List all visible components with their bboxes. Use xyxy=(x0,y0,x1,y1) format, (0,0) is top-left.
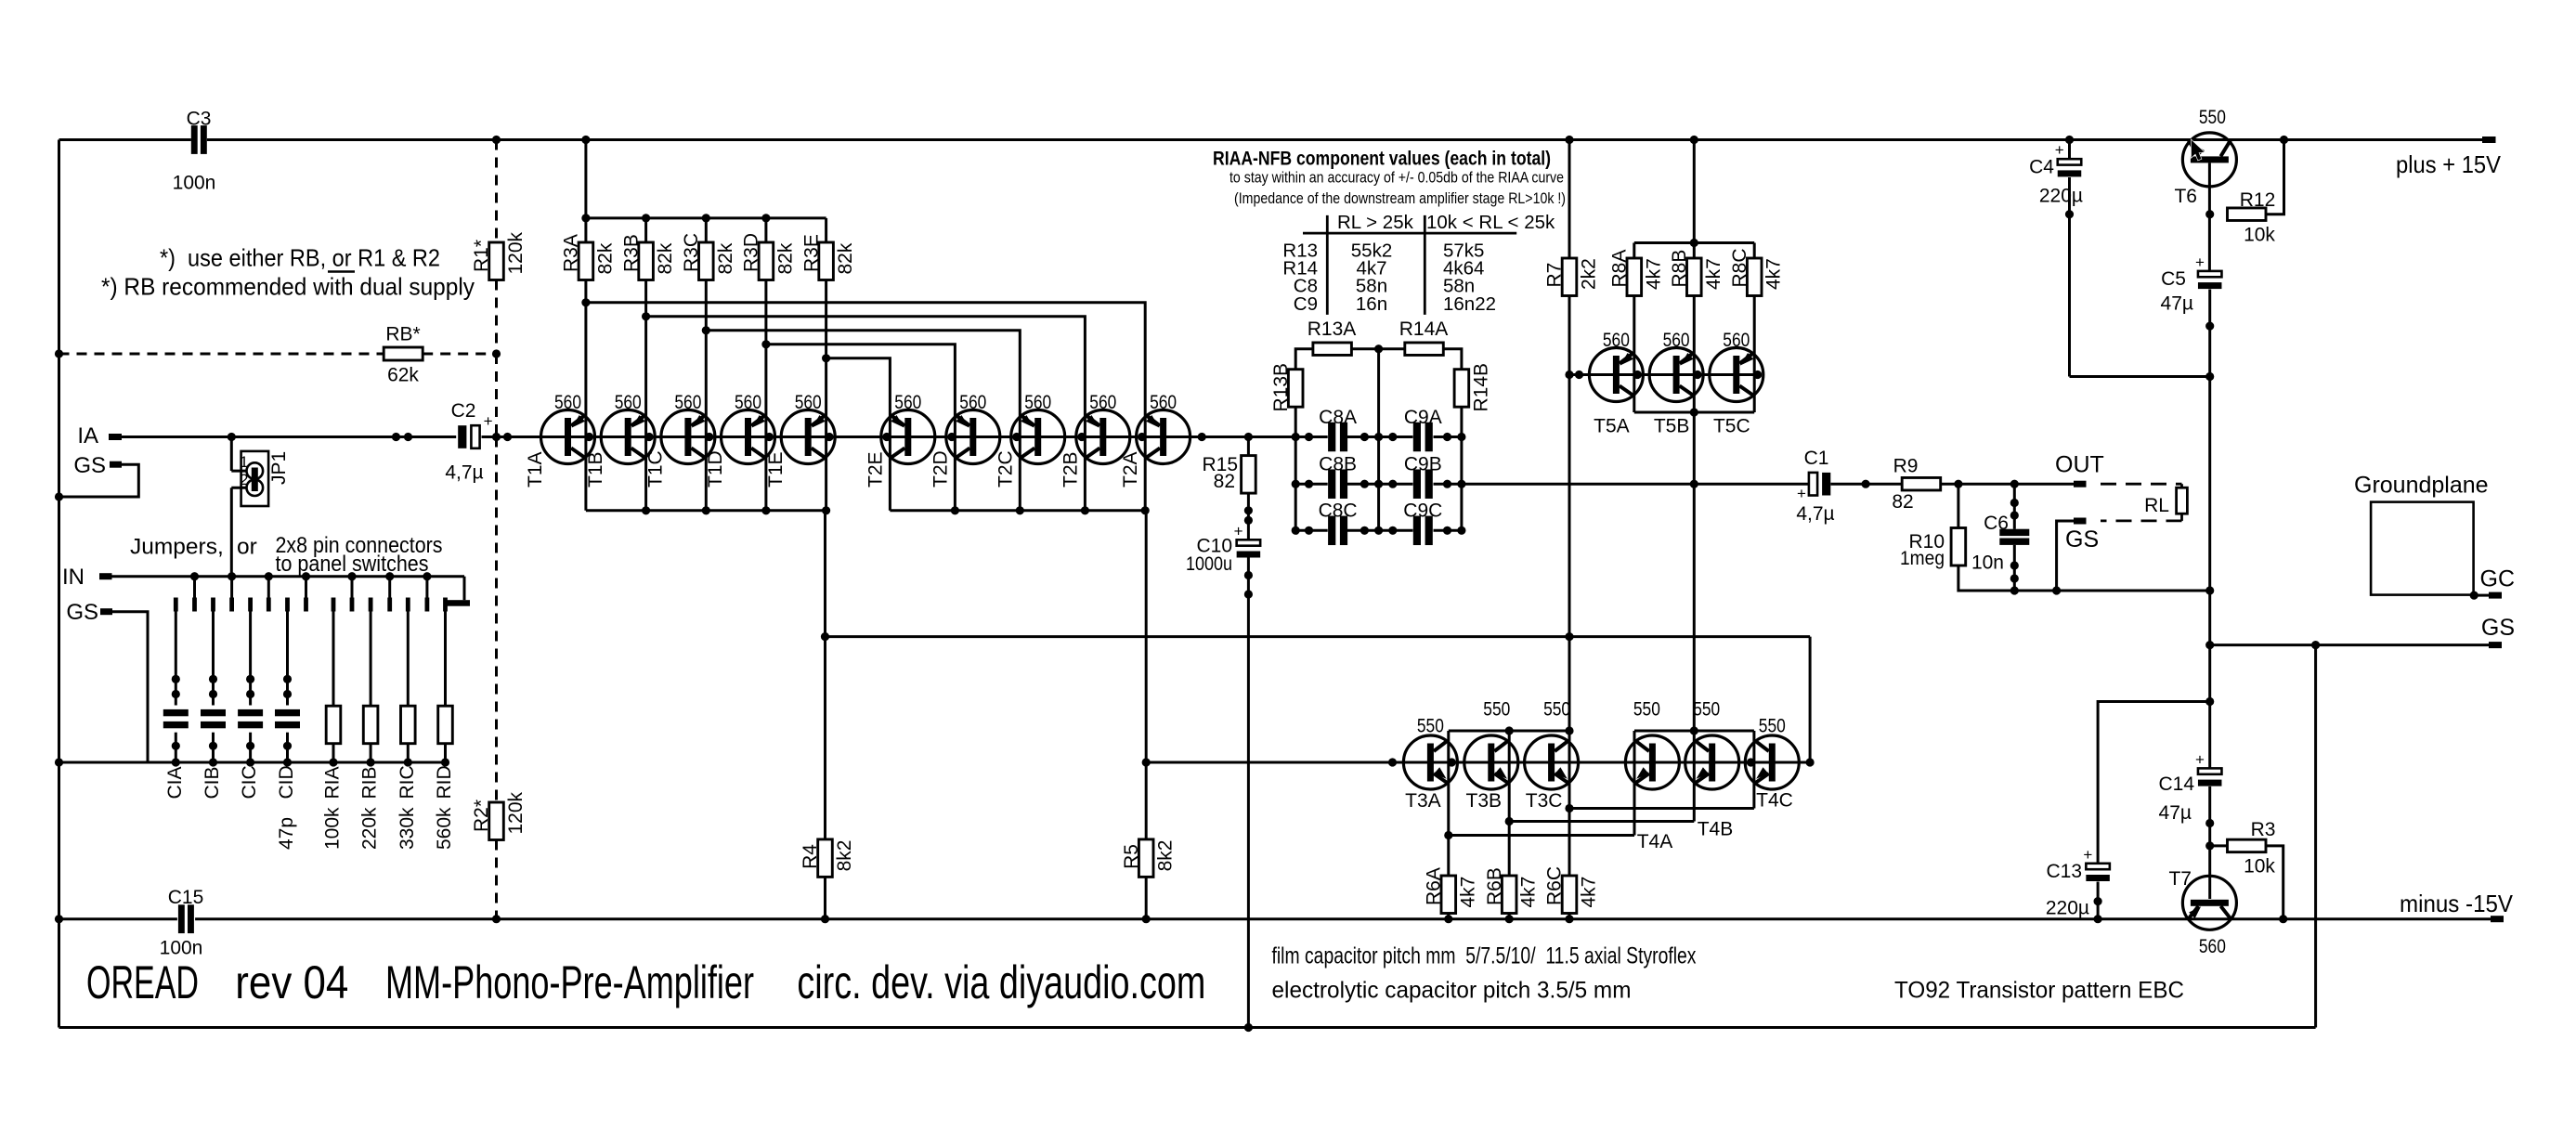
svg-text:T6: T6 xyxy=(2174,186,2197,207)
wire pin stub up x=209.5 xyxy=(193,577,196,598)
wire R3C column through T1C to collector bus xyxy=(705,331,708,511)
wire T5 base bus xyxy=(1569,373,1758,376)
terminal tick GC xyxy=(2489,592,2502,599)
svg-text:550: 550 xyxy=(2199,107,2226,128)
svg-text:560: 560 xyxy=(959,392,986,413)
transistor T1A xyxy=(541,410,595,464)
terminal tick GS right xyxy=(2489,642,2502,648)
wire R8B top stub xyxy=(1693,243,1696,259)
wire T5 collector bottom bus xyxy=(1634,411,1754,414)
resistor R1 xyxy=(489,242,504,280)
svg-text:560: 560 xyxy=(795,392,822,413)
svg-text:R14A: R14A xyxy=(1399,318,1449,340)
wire pin down to RIA xyxy=(332,612,335,707)
junction top rail x R7 column xyxy=(1565,136,1573,144)
wire R3D bottom to fan dot xyxy=(764,280,767,344)
junction R3 x minus rail xyxy=(2279,915,2287,923)
wire IN bus end corner to last pin xyxy=(463,577,466,601)
load RL stubs xyxy=(2180,484,2183,487)
capacitor C13 xyxy=(2083,846,2110,881)
resistor R14A body xyxy=(1405,343,1444,356)
transistor T4B xyxy=(1685,735,1739,789)
capacitor C8A xyxy=(1328,422,1347,452)
junction T5 base bus at T5A xyxy=(1633,370,1642,379)
wire C5 down to GS bus xyxy=(2208,290,2211,591)
svg-text:OUT: OUT xyxy=(2055,452,2104,478)
transistor T3C xyxy=(1525,735,1579,789)
wire row B to C1 xyxy=(1462,483,1809,486)
junction base bus at T1B xyxy=(645,433,654,441)
load RL body xyxy=(2177,487,2188,513)
junction input bus x left border xyxy=(55,758,63,766)
svg-text:120k: 120k xyxy=(505,791,527,834)
svg-text:C9: C9 xyxy=(1294,293,1318,315)
resistor R13B xyxy=(1288,370,1303,408)
junction dots T2 collector bus xyxy=(951,506,1089,514)
svg-text:R3A: R3A xyxy=(561,234,582,272)
svg-text:+: + xyxy=(1234,522,1243,539)
terminal tick minus -15V xyxy=(2491,916,2504,922)
wire T4B emitter drop xyxy=(1693,783,1696,821)
wire row B seg2 xyxy=(1347,483,1413,486)
wire R7 to T5 base bus xyxy=(1568,295,1571,375)
junction T3 collector bus x R7 column xyxy=(1565,726,1573,734)
junction top rail x R3A column xyxy=(581,136,590,144)
junction T2 collector bus x R5 column xyxy=(1141,506,1150,514)
junction R3E x fan line 5 xyxy=(822,354,830,362)
svg-text:C15: C15 xyxy=(168,887,204,908)
svg-text:100k: 100k xyxy=(322,807,344,850)
wire GS lower to bus xyxy=(112,612,148,762)
junction RID x input bus xyxy=(441,758,449,766)
wire R3E column through T1E to collector bus xyxy=(825,358,827,511)
svg-text:4,7µ: 4,7µ xyxy=(445,462,483,484)
svg-text:220k: 220k xyxy=(359,807,381,850)
capacitor C3 plates xyxy=(191,125,207,154)
wire R12 to top rail xyxy=(2266,140,2283,214)
wire T5B column row B to T4 collector bus xyxy=(1693,484,1696,731)
svg-text:T2D: T2D xyxy=(930,450,951,487)
svg-text:4k7: 4k7 xyxy=(1457,877,1478,908)
wire emitter line B T3B to T4B xyxy=(1509,820,1694,823)
svg-text:C9A: C9A xyxy=(1404,407,1442,428)
svg-text:RIC: RIC xyxy=(397,765,418,799)
svg-text:R3: R3 xyxy=(2251,819,2276,840)
wire RIB to input bus xyxy=(370,744,372,762)
wire R3E top stub xyxy=(825,218,827,242)
transistor T2E xyxy=(881,410,935,464)
junction dot right of C2 xyxy=(503,433,512,441)
wire T4C emitter drop xyxy=(1752,783,1755,808)
svg-text:550: 550 xyxy=(1543,699,1570,721)
svg-text:560: 560 xyxy=(554,392,581,413)
svg-text:R3D: R3D xyxy=(741,233,762,272)
svg-text:C8B: C8B xyxy=(1319,454,1357,475)
wire pin down to RID xyxy=(444,612,447,707)
connector JP1 pads and shunt xyxy=(247,462,264,496)
svg-text:IN: IN xyxy=(62,565,85,590)
svg-text:GS: GS xyxy=(2481,615,2515,641)
svg-text:Groundplane: Groundplane xyxy=(2354,473,2489,499)
svg-text:550: 550 xyxy=(1759,716,1786,737)
svg-text:100n: 100n xyxy=(173,172,216,193)
wire T3C collector-emitter column xyxy=(1568,731,1571,809)
svg-text:R8C: R8C xyxy=(1729,248,1750,287)
svg-text:CIA: CIA xyxy=(164,766,186,799)
capacitor C1 xyxy=(1797,473,1830,502)
wire CID to input bus xyxy=(286,733,289,762)
junction dots below C6 xyxy=(2010,561,2019,582)
wire T1 collector bus xyxy=(586,509,826,512)
svg-text:560: 560 xyxy=(1603,330,1630,351)
transistor T2B xyxy=(1076,410,1130,464)
junction dots R3 top bus xyxy=(581,214,770,222)
svg-text:+: + xyxy=(2055,141,2064,159)
junction T6 base x R12 xyxy=(2205,210,2214,218)
wire C6 top stub xyxy=(2013,484,2016,529)
junction RIA x input bus xyxy=(329,758,337,766)
wire pin stub up x=459.9 xyxy=(425,577,428,598)
junction dots below C14 xyxy=(2205,819,2214,851)
capacitor C14 xyxy=(2195,750,2222,786)
svg-text:16n: 16n xyxy=(1356,293,1387,315)
svg-text:1: 1 xyxy=(240,453,248,471)
wire top +15V rail main segment xyxy=(207,138,2482,141)
wire R6C to minus rail xyxy=(1568,914,1571,919)
wire C6 bottom stub xyxy=(2013,545,2016,591)
resistor RB xyxy=(384,347,423,360)
capacitor CID xyxy=(275,709,300,728)
junction row B x T4 collector column xyxy=(1690,480,1698,488)
svg-text:C4: C4 xyxy=(2029,157,2054,178)
dashed wire RB node to C2 node xyxy=(495,354,498,437)
svg-text:550: 550 xyxy=(1417,716,1444,737)
svg-text:82k: 82k xyxy=(655,242,676,274)
junction C1 R9 node xyxy=(1862,480,1870,488)
junction dots above CIA xyxy=(172,675,180,698)
terminal tick GS upper xyxy=(110,461,122,468)
capacitor C8B xyxy=(1328,469,1347,499)
svg-text:560: 560 xyxy=(1089,392,1116,413)
terminal tick IA xyxy=(109,434,122,440)
table column separator 2 xyxy=(1424,215,1426,315)
junction dots on IA wire before C2 xyxy=(392,433,412,441)
junction T1 collector bus x R4 column xyxy=(822,506,830,514)
resistor R5 xyxy=(1138,839,1153,877)
svg-text:560: 560 xyxy=(1150,392,1177,413)
wire R8A top stub xyxy=(1633,243,1635,259)
transistor T5B xyxy=(1649,348,1703,402)
junction T5 bottom bus x center column xyxy=(1690,408,1698,416)
junction C2 output x dashed column xyxy=(492,433,501,441)
wire R9 to OUT xyxy=(1941,483,2074,486)
wire minus rail left segment xyxy=(59,917,177,920)
svg-text:CIB: CIB xyxy=(202,766,223,799)
svg-text:R6A: R6A xyxy=(1424,867,1445,905)
wire fan line 3 from R3C to T2C collector xyxy=(706,331,1020,511)
svg-text:560: 560 xyxy=(1024,392,1051,413)
svg-text:62k: 62k xyxy=(387,365,419,386)
svg-text:R9: R9 xyxy=(1893,456,1919,477)
svg-text:8k2: 8k2 xyxy=(1155,840,1177,872)
wire emitter line C T3A to T4A xyxy=(1449,834,1634,837)
svg-text:560k: 560k xyxy=(434,807,455,850)
junction C10 wire x bottom border xyxy=(1244,1023,1253,1032)
junction line A x T3C emitter xyxy=(1565,804,1573,812)
terminal tick IN xyxy=(99,573,112,579)
junction base bus at T2A xyxy=(1138,433,1146,441)
junction R9 out x R10 xyxy=(1954,480,1962,488)
junction dots row B xyxy=(1292,480,1466,488)
wire T5B column down to row B xyxy=(1693,412,1696,484)
svg-text:*) RB recommended with dual su: *) RB recommended with dual supply xyxy=(101,273,475,301)
svg-text:2: 2 xyxy=(240,471,248,488)
wire R10 to GS bus xyxy=(1958,565,2210,591)
wire pin down to CIA xyxy=(175,612,177,706)
wire R6A to minus rail xyxy=(1447,914,1450,919)
wire left border xyxy=(58,140,60,1028)
wire R3B top stub xyxy=(644,218,647,242)
wire R3E bottom to fan dot xyxy=(825,280,827,358)
junction dots IN bus xyxy=(190,572,432,580)
svg-text:RB*: RB* xyxy=(385,324,420,345)
svg-text:550: 550 xyxy=(1633,699,1660,721)
junction R6B x minus rail xyxy=(1505,915,1514,923)
resistor R15 xyxy=(1242,456,1256,493)
svg-text:T3B: T3B xyxy=(1466,790,1503,812)
svg-text:47p: 47p xyxy=(276,817,297,850)
resistor R7 xyxy=(1562,258,1577,296)
svg-text:T2B: T2B xyxy=(1060,451,1081,487)
wire R7 column to 686 line xyxy=(1568,375,1571,637)
resistor R8A xyxy=(1627,258,1642,296)
junction C13 x minus rail xyxy=(2094,915,2102,923)
resistor R3B xyxy=(639,242,654,280)
junction CIA x input bus xyxy=(172,758,180,766)
svg-text:560: 560 xyxy=(894,392,921,413)
transistor T4A xyxy=(1625,735,1679,789)
wire pin down to RIB xyxy=(370,612,372,707)
svg-text:1000u: 1000u xyxy=(1186,553,1232,575)
capacitor CIA xyxy=(163,709,189,728)
dashed wire R1 to RB node xyxy=(495,280,498,355)
resistor R4 xyxy=(818,839,833,877)
terminal tick GS lower xyxy=(100,608,112,615)
svg-text:T5B: T5B xyxy=(1654,416,1690,437)
wire rail down to R3 top bus xyxy=(584,140,587,218)
wire GS upper to left border xyxy=(59,464,139,497)
wire R3C bottom to fan dot xyxy=(705,280,708,331)
wire row A seg2 xyxy=(1347,435,1413,438)
junction GS bus x GS stub xyxy=(2052,586,2061,594)
svg-text:82: 82 xyxy=(1214,471,1235,492)
svg-text:R6C: R6C xyxy=(1544,866,1566,905)
resistor R6C xyxy=(1562,876,1577,914)
capacitor C6 xyxy=(1999,529,2029,545)
resistor R8C xyxy=(1747,258,1762,296)
junction C4 branch x main vertical xyxy=(2205,372,2214,381)
junction CIB x input bus xyxy=(209,758,217,766)
svg-text:C9C: C9C xyxy=(1403,500,1442,522)
resistor R3 10k xyxy=(2228,839,2267,852)
junction below C5 xyxy=(2205,322,2214,331)
wire IA to C2 xyxy=(122,435,456,438)
wire C13 branch xyxy=(2098,702,2210,864)
svg-text:C9B: C9B xyxy=(1404,454,1442,475)
wire T4 collector bus xyxy=(1634,730,1754,733)
junction RB x R1 column xyxy=(492,349,501,357)
svg-text:CIC: CIC xyxy=(239,765,260,799)
svg-text:plus + 15V: plus + 15V xyxy=(2396,150,2502,178)
resistor RIB xyxy=(363,706,378,744)
wire T3A collector-emitter column xyxy=(1447,731,1450,836)
svg-text:RIB: RIB xyxy=(359,766,381,799)
junction groundplane GC corner xyxy=(2470,591,2478,600)
svg-text:T2E: T2E xyxy=(865,451,886,487)
wire R14A left stub xyxy=(1379,347,1405,350)
wire R8 top bus xyxy=(1634,241,1754,244)
wire CIB to input bus xyxy=(212,733,215,762)
wire T7 base x R3 stub xyxy=(2210,844,2228,847)
transistor T1B xyxy=(601,410,655,464)
terminal tick OUT xyxy=(2074,481,2087,487)
wire C14 down to T7 xyxy=(2208,786,2211,899)
junction GS bus x C6 xyxy=(2010,586,2019,594)
svg-text:560: 560 xyxy=(615,392,642,413)
svg-text:T4C: T4C xyxy=(1756,790,1793,812)
wire IN bus xyxy=(112,575,465,578)
junction dots above CID xyxy=(283,675,292,698)
svg-text:C5: C5 xyxy=(2161,268,2186,290)
svg-text:R14B: R14B xyxy=(1470,363,1491,412)
svg-text:rev 04: rev 04 xyxy=(235,956,348,1008)
capacitor CIC xyxy=(238,709,263,728)
svg-text:+: + xyxy=(2195,750,2205,768)
wire pin stub up x=379.0 xyxy=(351,577,354,598)
wire main vertical GS bus to GS net xyxy=(2208,591,2211,645)
svg-text:560: 560 xyxy=(735,392,761,413)
resistor R3E xyxy=(819,242,834,280)
wire C2 to T1 base bus xyxy=(482,435,1328,438)
wire R14A right to R14B top xyxy=(1443,349,1462,370)
junction main vertical x C13 branch xyxy=(2205,697,2214,706)
junction base bus at T1D xyxy=(765,433,774,441)
junction left border x RB dashed xyxy=(55,349,63,357)
wire R3D column through T1D to collector bus xyxy=(764,344,767,511)
junction OUT line x C6 xyxy=(2010,480,2019,488)
junction below CID xyxy=(283,742,292,750)
resistor R13A body xyxy=(1313,343,1352,356)
wire T4A collector column xyxy=(1633,731,1636,783)
wire R7 column 686 to T3 collector bus xyxy=(1568,637,1571,731)
transistor T1C xyxy=(661,410,715,464)
svg-text:MM-Phono-Pre-Amplifier: MM-Phono-Pre-Amplifier xyxy=(385,956,754,1008)
capacitor C9C xyxy=(1413,516,1433,546)
svg-text:R5: R5 xyxy=(1121,844,1142,869)
junction top rail x R8B column xyxy=(1690,136,1698,144)
wire minus rail main segment xyxy=(195,917,2491,920)
terminal tick plus +15V xyxy=(2482,136,2496,143)
wire CIC to input bus xyxy=(249,733,252,762)
groundplane box xyxy=(2371,502,2474,595)
wire row C seg3 xyxy=(1434,529,1462,532)
wire R3 top bus xyxy=(586,216,826,219)
svg-text:4k7: 4k7 xyxy=(1579,877,1600,908)
wire row C seg2 xyxy=(1347,529,1413,532)
wire T6 base down xyxy=(2208,162,2211,271)
transistor T1E xyxy=(781,410,835,464)
wire main vertical GS net to C14 xyxy=(2208,645,2211,769)
svg-text:T1C: T1C xyxy=(645,450,667,487)
svg-text:RIAA-NFB component values (eac: RIAA-NFB component values (each in total… xyxy=(1213,148,1551,170)
junction CIC x input bus xyxy=(246,758,254,766)
junction base bus at T2C xyxy=(1012,433,1021,441)
wire T4A emitter drop xyxy=(1633,783,1636,835)
wire R15 to C10 xyxy=(1247,493,1250,539)
transistor T2D xyxy=(946,410,1000,464)
resistor R3A xyxy=(579,242,593,280)
svg-text:R4: R4 xyxy=(800,844,821,869)
note underline under or xyxy=(328,270,355,273)
wire R3A top stub xyxy=(584,218,587,242)
junction dots above CIB xyxy=(209,675,217,698)
resistor R10 xyxy=(1951,528,1966,566)
connector JP1 body xyxy=(241,451,269,506)
svg-text:82k: 82k xyxy=(715,242,736,274)
svg-text:film capacitor pitch mm 5/7.5: film capacitor pitch mm 5/7.5/10/ 11.5 a… xyxy=(1272,943,1697,969)
wire top +15V rail left segment xyxy=(59,138,191,141)
junction main vertical x GS net xyxy=(2205,641,2214,649)
svg-text:IA: IA xyxy=(77,423,98,448)
junction R5 column x T3 base bus xyxy=(1142,758,1151,766)
junction dots T1 collector bus xyxy=(642,506,771,514)
wire fan line 2 from R3B to T2D collector xyxy=(646,317,1086,511)
svg-text:1meg: 1meg xyxy=(1900,548,1945,569)
junction R12 x top rail xyxy=(2280,136,2288,144)
svg-text:T2C: T2C xyxy=(995,450,1016,487)
svg-text:T1E: T1E xyxy=(765,451,787,487)
svg-text:10n: 10n xyxy=(1971,552,2004,574)
junction line C x T3A emitter xyxy=(1444,831,1452,839)
junction R3C x fan line 3 xyxy=(702,326,710,334)
svg-text:330k: 330k xyxy=(397,807,418,850)
svg-text:+: + xyxy=(484,412,493,430)
wire row B seg3 xyxy=(1434,483,1462,486)
wire RIA to input bus xyxy=(332,744,335,762)
junction R4 column x 686 line xyxy=(821,632,829,641)
svg-text:GS: GS xyxy=(73,453,106,478)
wire GS out stub xyxy=(2057,521,2074,591)
svg-text:C8C: C8C xyxy=(1319,500,1358,522)
junction R2 x minus rail xyxy=(492,915,501,923)
junction R4 x minus rail xyxy=(821,915,829,923)
wire pin down to CIC xyxy=(249,612,252,706)
svg-text:GC: GC xyxy=(2480,566,2516,592)
capacitor C8C xyxy=(1328,516,1347,546)
svg-text:C6: C6 xyxy=(1984,513,2009,534)
wire pin stub up x=329.5 xyxy=(305,577,307,598)
wire R6B to minus rail xyxy=(1508,914,1511,919)
wire rail to R7 xyxy=(1568,140,1571,259)
wire left rail R13B to rowC xyxy=(1295,407,1297,530)
wire C10 down to bottom border xyxy=(1247,557,1250,1027)
wire pin stub up x=249.6 xyxy=(230,577,233,598)
svg-text:R2*: R2* xyxy=(471,799,492,832)
junction base bus at T2E xyxy=(882,433,891,441)
junction T3 collector bus x T3B xyxy=(1505,726,1514,734)
svg-text:T3C: T3C xyxy=(1526,790,1563,812)
wire C1 to R9 xyxy=(1830,483,1902,486)
